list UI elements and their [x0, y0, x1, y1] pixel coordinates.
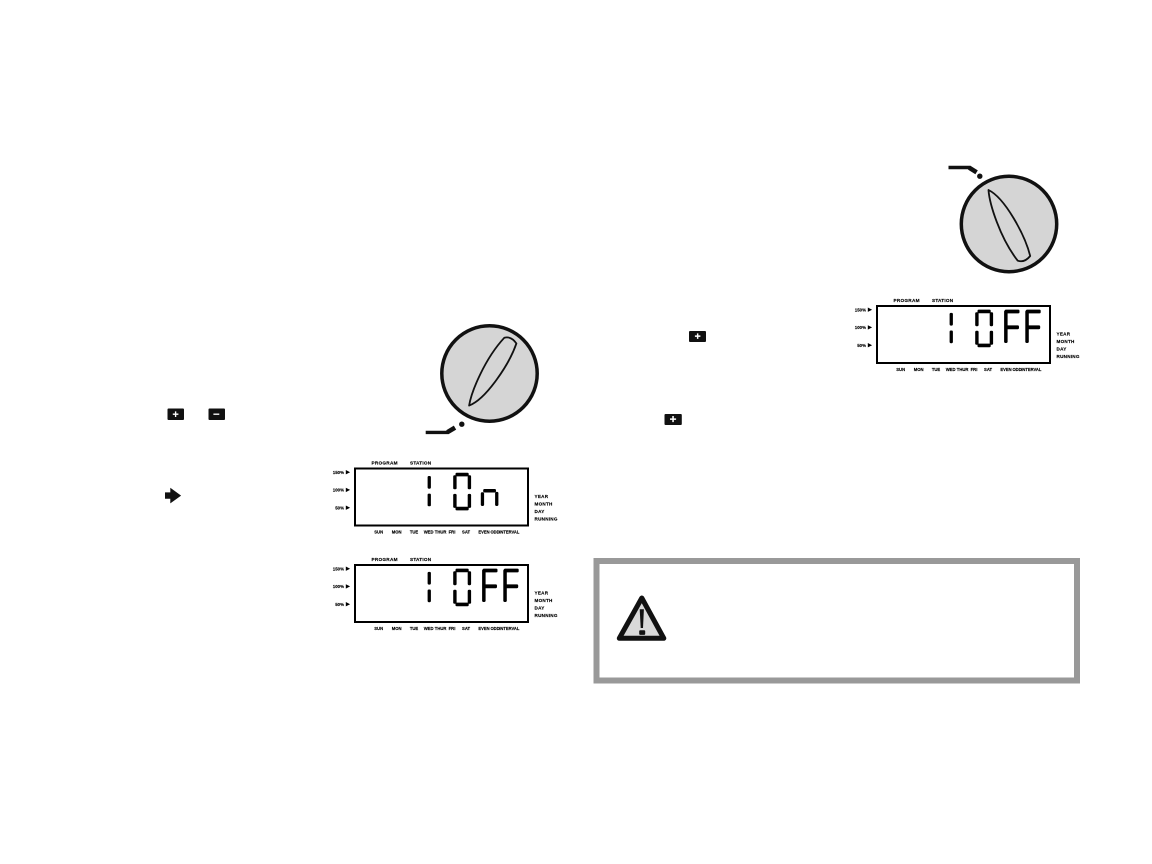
dial knob middle [442, 326, 537, 421]
LCD display middle lower: 1 OFF [333, 557, 558, 631]
warning triangle icon [619, 598, 664, 638]
dial position marker middle [426, 422, 465, 433]
dial position marker top right [949, 168, 983, 179]
plus button right upper [689, 331, 706, 342]
dial knob top right [961, 176, 1056, 271]
minus button left [209, 409, 226, 421]
plus button left [168, 409, 185, 421]
plus button right lower [665, 414, 682, 425]
warning note box [597, 561, 1078, 681]
LCD display middle: 1 On [333, 460, 558, 534]
LCD display top right: 1 OFF [855, 298, 1080, 372]
arrow pointer icon [165, 488, 181, 504]
